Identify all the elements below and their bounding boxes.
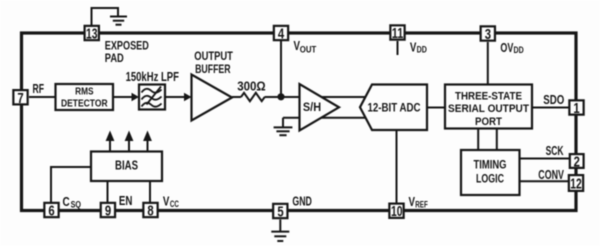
lowpass filter block 150kHz LPF: [139, 85, 165, 110]
wire timing logic to pin2 SCK: [520, 158, 571, 160]
svg-text:12: 12: [570, 176, 582, 193]
pin 1: [569, 100, 583, 114]
wire ADC to serial port: [427, 107, 445, 109]
pin 11: [390, 25, 404, 39]
svg-text:12-BIT ADC: 12-BIT ADC: [368, 100, 421, 114]
svg-text:OV: OV: [500, 40, 513, 55]
svg-text:SERIAL OUTPUT: SERIAL OUTPUT: [448, 103, 529, 115]
wire S/H lower reference line: [283, 117, 367, 119]
wire pin6 to bias: [51, 167, 91, 203]
bias output arrow 3: [147, 140, 149, 152]
svg-text:SQ: SQ: [71, 199, 81, 209]
wire serial port to pin1 SDO: [532, 107, 569, 109]
svg-text:SCK: SCK: [546, 144, 564, 158]
pin 9: [101, 203, 115, 217]
wire pin13 to exposed-pad ground: [92, 8, 119, 26]
op-amp buffer A1 (OUTPUT BUFFER): [192, 75, 233, 121]
wire LPF to output buffer (arrow): [165, 96, 185, 98]
svg-text:SDO: SDO: [543, 93, 564, 107]
svg-text:S/H: S/H: [303, 100, 321, 114]
svg-text:GND: GND: [292, 195, 312, 209]
wire buffer to resistor: [232, 96, 241, 98]
svg-text:CC: CC: [170, 199, 179, 209]
svg-text:TIMING: TIMING: [474, 160, 507, 172]
12-bit ADC block: [360, 85, 427, 131]
wire pin5 ground stem: [279, 220, 281, 232]
wire pin11 stub: [397, 41, 399, 55]
wire serial port to timing logic (right): [496, 129, 498, 151]
svg-text:4: 4: [278, 26, 285, 43]
ground (exposed pad): [110, 17, 127, 25]
wire RMS detector to LPF (arrow): [113, 96, 132, 98]
wire pin8 to bias: [149, 181, 151, 203]
S/H sample-and-hold amp: [300, 84, 340, 131]
wire timing logic to pin12 CONV: [520, 180, 569, 182]
resistor R 300ohm: [241, 93, 265, 101]
filter symbol squiggles: [142, 87, 162, 107]
svg-text:OUT: OUT: [300, 44, 317, 54]
svg-text:DD: DD: [417, 45, 427, 55]
pin 8: [143, 203, 157, 217]
outer supply bus rectangle: [22, 33, 577, 211]
svg-text:THREE-STATE: THREE-STATE: [455, 91, 522, 103]
svg-text:DD: DD: [514, 45, 524, 55]
wire resistor to S/H input: [265, 96, 367, 98]
pin 7: [13, 90, 27, 104]
svg-text:150kHz LPF: 150kHz LPF: [126, 70, 180, 84]
timing logic block U3: [461, 150, 520, 195]
pin 6: [44, 203, 58, 217]
svg-text:11: 11: [392, 25, 404, 42]
svg-text:BUFFER: BUFFER: [195, 62, 231, 76]
svg-text:RF: RF: [33, 82, 45, 96]
wire pin4 to junction: [280, 41, 282, 97]
bias output arrow 2: [128, 140, 130, 152]
svg-text:RMS: RMS: [75, 86, 93, 98]
svg-text:300Ω: 300Ω: [237, 79, 266, 93]
wire ground stem at S/H: [282, 118, 284, 128]
svg-text:1: 1: [573, 100, 579, 117]
svg-text:C: C: [63, 194, 71, 209]
svg-text:6: 6: [48, 203, 54, 220]
three-state serial output port block U2: [445, 85, 532, 129]
wire ADC to pin10 VREF: [396, 130, 398, 203]
svg-text:V: V: [409, 194, 416, 209]
svg-text:7: 7: [17, 90, 23, 107]
wire pin3 to serial port: [487, 42, 489, 85]
pin 12: [569, 175, 583, 191]
svg-text:13: 13: [86, 26, 98, 43]
svg-text:BIAS: BIAS: [115, 158, 138, 172]
junction node at VOUT tap: [277, 93, 284, 100]
wire pin9 to bias: [107, 181, 109, 203]
svg-text:3: 3: [485, 26, 491, 43]
svg-text:PAD: PAD: [105, 51, 124, 65]
svg-text:5: 5: [277, 203, 283, 220]
svg-text:8: 8: [147, 203, 153, 220]
svg-text:V: V: [163, 194, 170, 209]
wire pin7 to RMS detector: [29, 96, 56, 98]
pin 2: [570, 154, 584, 168]
svg-text:LOGIC: LOGIC: [476, 173, 504, 185]
svg-text:2: 2: [574, 153, 580, 170]
pin 13: [85, 26, 99, 40]
svg-text:10: 10: [391, 203, 403, 220]
pin 4: [274, 26, 288, 40]
svg-text:DETECTOR: DETECTOR: [61, 97, 108, 109]
pin 5: [273, 204, 287, 218]
pin 3: [481, 26, 495, 40]
ground (GND pin): [271, 232, 289, 241]
svg-text:CONV: CONV: [538, 168, 564, 182]
RMS detector block: [56, 84, 114, 110]
bias output arrow 1: [109, 140, 111, 152]
svg-text:9: 9: [105, 203, 111, 220]
wire serial port to timing logic (left): [477, 129, 479, 151]
svg-text:OUTPUT: OUTPUT: [194, 49, 233, 63]
ground (S/H reference): [274, 127, 293, 135]
svg-text:REF: REF: [415, 199, 428, 209]
svg-text:PORT: PORT: [475, 116, 502, 128]
bias block: [91, 152, 162, 182]
svg-text:EN: EN: [119, 194, 132, 208]
pin 10: [389, 204, 403, 218]
